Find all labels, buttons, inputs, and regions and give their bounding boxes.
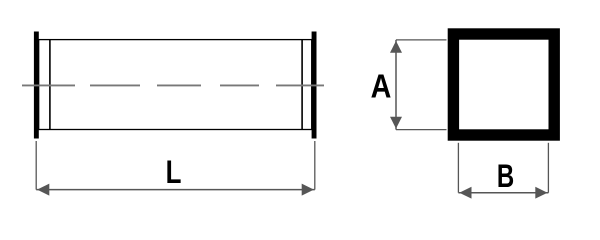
svg-text:B: B [497,157,514,193]
svg-text:L: L [166,155,182,190]
svg-text:A: A [371,68,392,105]
